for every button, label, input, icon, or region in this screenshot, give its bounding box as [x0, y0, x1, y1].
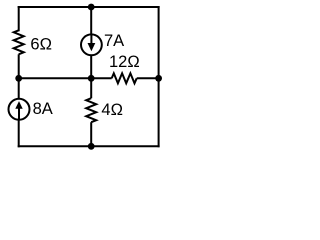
- wire right side: right-middle node down to bottom-right corner: [158, 78, 160, 146]
- resistor R2 12ohm (middle right branch, horizontal zigzag): [112, 73, 137, 83]
- wire top-left corner to top-right corner (top net): [19, 6, 159, 8]
- wire middle horizontal: R2 right to right-middle node: [137, 77, 159, 79]
- wire middle vertical: center node to resistor R3: [90, 78, 92, 98]
- node junction dot: bottom-middle: [88, 143, 95, 150]
- wire middle horizontal: left-middle node to center node: [19, 77, 92, 79]
- current source I2 8A (circle, arrow up): [9, 99, 30, 120]
- resistor R3 4ohm (middle bottom branch, vertical zigzag): [86, 98, 96, 122]
- wire left side: top-left corner down to resistor R1: [18, 7, 20, 30]
- svg-text:12Ω: 12Ω: [109, 53, 140, 71]
- wire middle horizontal: center node to resistor R2: [91, 77, 112, 79]
- node junction dot: center cross: [88, 75, 95, 82]
- node junction dot: left-middle: [15, 75, 22, 82]
- node junction dot: right-middle: [155, 75, 162, 82]
- svg-text:7A: 7A: [104, 32, 124, 50]
- value label 7A for I1: [104, 32, 124, 50]
- svg-text:4Ω: 4Ω: [101, 101, 123, 119]
- value label 4Ω for R3: [101, 101, 123, 119]
- wire right side: top-right corner down to right-middle node: [158, 7, 160, 78]
- wire middle vertical: top node down to current source I1: [90, 7, 92, 35]
- node junction dot: top-middle: [88, 4, 95, 11]
- wire left side: I2 bottom to bottom-left corner: [18, 120, 20, 147]
- current source I1 7A (circle, arrow down): [81, 34, 102, 55]
- value label 8A for I2: [33, 100, 53, 118]
- resistor R1 6ohm (left branch, vertical zigzag): [14, 30, 24, 54]
- value label 12Ω for R2: [109, 53, 140, 71]
- svg-text:6Ω: 6Ω: [30, 36, 52, 54]
- wire left side: R1 bottom to left-middle node: [18, 54, 20, 78]
- wire middle vertical: I1 bottom to center node: [90, 55, 92, 78]
- wire bottom: bottom-right corner to bottom-left corner (bottom net): [19, 145, 159, 147]
- value label 6Ω for R1: [30, 36, 52, 54]
- svg-text:8A: 8A: [33, 100, 53, 118]
- wire middle vertical: R3 bottom to bottom-middle node: [90, 122, 92, 146]
- wire left side: left-middle node to current source I2: [18, 78, 20, 99]
